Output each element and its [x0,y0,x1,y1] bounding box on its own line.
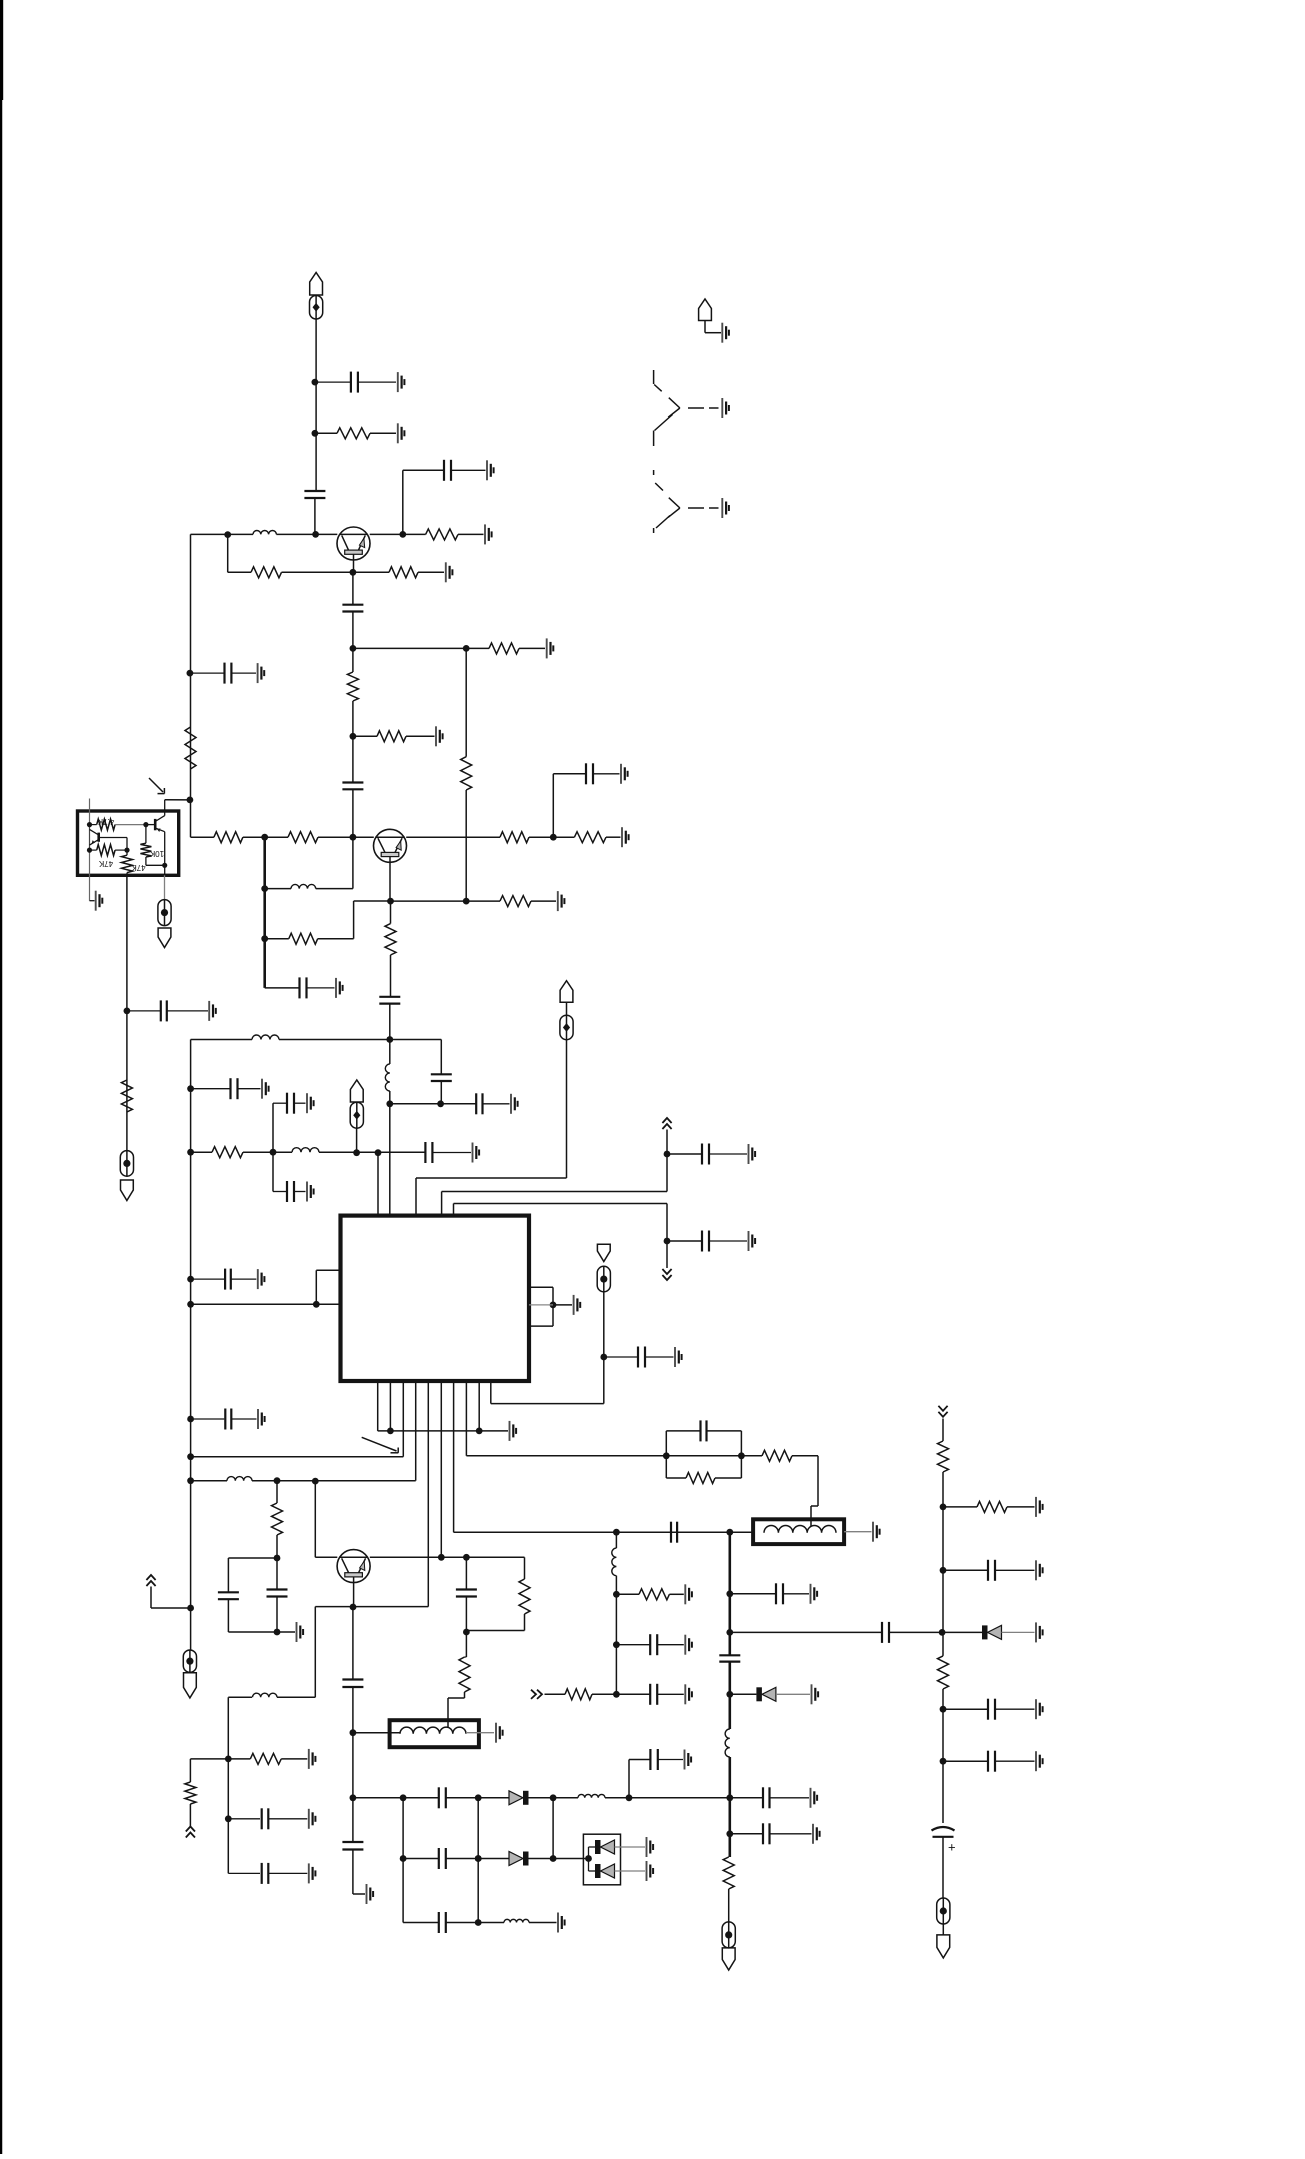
svg-text:10K: 10K [149,849,164,858]
svg-text:47K: 47K [98,859,113,868]
svg-text:+: + [948,1840,956,1855]
svg-text:4.7K: 4.7K [97,817,114,826]
svg-text:47K: 47K [131,863,146,872]
